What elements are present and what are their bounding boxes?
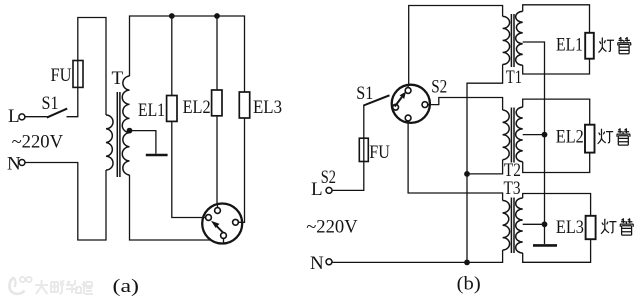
contact top (b) [405, 88, 411, 94]
rotary switch S2 body [392, 85, 430, 123]
fuse FU (b) [359, 138, 368, 161]
label 灯管 for EL1 (b) [599, 37, 632, 54]
wire secondary top to top rail to EL3 [130, 16, 245, 92]
lamp EL2 (b) [585, 125, 595, 153]
transformer T secondary winding [122, 76, 129, 175]
svg-text:~220V: ~220V [306, 217, 358, 238]
switch S1 blade [47, 109, 67, 118]
terminal N [19, 160, 25, 166]
contact stubs [203, 204, 242, 243]
contact bottom (b) [405, 115, 411, 121]
node junction rail-EL1 [169, 13, 175, 19]
svg-text:T3: T3 [504, 178, 521, 199]
wiper arrow (b) [395, 97, 402, 106]
ground (b) [533, 244, 557, 247]
svg-text:N: N [310, 253, 324, 274]
wire T1 secondary bottom to EL1 bottom [523, 59, 590, 74]
transformer T3 primary [503, 201, 510, 251]
transformer T3 secondary [516, 198, 523, 253]
contact top [215, 208, 221, 214]
svg-text:EL3: EL3 [253, 97, 282, 118]
svg-text:S2: S2 [431, 77, 447, 98]
svg-text:L: L [8, 106, 20, 127]
wire T2 secondary top to EL2 [523, 99, 590, 125]
svg-text:EL2: EL2 [183, 97, 211, 118]
lamp EL1 (b) [585, 33, 594, 59]
transformer T2 primary [503, 110, 510, 160]
contact left [206, 215, 212, 221]
wire secondary bottom to switch bottom [130, 175, 211, 240]
wire switch bottom to T3 primary [408, 123, 503, 201]
contact right [233, 219, 239, 225]
wire T1 secondary top to EL1 [523, 5, 590, 33]
wire T2 secondary bottom to EL2 bottom [523, 153, 590, 173]
node T2 primary to middle [464, 171, 470, 177]
wire T2 tap to chain [523, 134, 545, 136]
svg-text:S1: S1 [42, 93, 59, 114]
svg-text:(a): (a) [113, 276, 140, 297]
svg-text:S2: S2 [321, 167, 336, 188]
transformer T1 secondary [516, 11, 523, 65]
svg-text:~220V: ~220V [12, 132, 64, 153]
svg-text:S1: S1 [356, 83, 373, 104]
wiper arrow [216, 226, 223, 233]
transformer T1 core [511, 14, 514, 67]
svg-text:N: N [7, 154, 21, 175]
wire tap to ground [130, 131, 156, 154]
watermark logo [9, 277, 31, 294]
wire EL2 to switch top [216, 116, 218, 204]
transformer T primary winding [106, 115, 113, 170]
transformer T1 primary [503, 16, 510, 64]
terminal L (b) [326, 187, 332, 193]
node N rail-middle vertical [464, 260, 470, 266]
lamp EL3 (b) [586, 216, 596, 239]
lamp EL3 [239, 92, 249, 118]
wire EL1 to switch left contact [172, 121, 203, 217]
svg-text:FU: FU [369, 142, 390, 163]
terminal N (b) [326, 259, 332, 265]
wire N rail to T3 primary bottom [332, 250, 502, 262]
switch S1 blade (b) [364, 95, 390, 105]
svg-text:T1: T1 [506, 67, 522, 88]
wire FU through and up to loop, across, down to T primary [78, 18, 106, 116]
transformer T core [117, 92, 120, 177]
wire T3 tap to chain [523, 223, 545, 225]
svg-text:EL1: EL1 [556, 35, 583, 56]
wire T3 secondary top to EL3 [523, 194, 591, 216]
svg-text:L: L [311, 179, 323, 200]
lamp EL1 [167, 96, 177, 122]
wire switch top to T1 primary [409, 6, 503, 85]
contact left (b) [393, 104, 399, 110]
watermark text [35, 280, 93, 294]
transformer T3 core [511, 198, 514, 254]
transformer T2 core [511, 108, 514, 163]
ground [146, 154, 168, 157]
wire through fuse up to S1 pivot [363, 105, 365, 162]
contact bottom [221, 233, 227, 239]
contact stubs (b) [392, 85, 430, 123]
wire EL1 drop from rail [171, 16, 173, 96]
fuse FU [73, 61, 83, 88]
svg-text:(b): (b) [457, 274, 481, 295]
wire T2 primary bottom to middle vertical [467, 160, 503, 174]
svg-text:EL1: EL1 [138, 100, 165, 121]
wire switch right contact to T2 primary [430, 98, 503, 111]
wire T1 primary bottom down the middle [467, 64, 503, 262]
rotary switch SA body [202, 204, 242, 244]
lamp EL2 [212, 90, 222, 116]
terminal L [19, 114, 25, 120]
node T3 tap [542, 221, 548, 227]
wire S1 to FU [67, 87, 78, 116]
wire L to FU (b) [332, 162, 364, 191]
svg-text:EL2: EL2 [556, 127, 584, 148]
svg-text:T: T [112, 68, 124, 89]
wire T1 tap to ground chain [523, 42, 545, 244]
node junction rail-EL2 [214, 13, 220, 19]
wire N to primary bottom [25, 163, 106, 241]
svg-text:FU: FU [51, 65, 72, 86]
label 灯管 for EL2 (b) [598, 129, 631, 146]
node T2 tap [542, 132, 548, 138]
svg-text:EL3: EL3 [556, 217, 584, 238]
label 灯管 for EL3 (b) [601, 219, 634, 236]
wire T3 secondary bottom to EL3 bottom [523, 239, 591, 262]
wire EL3 to switch right contact [242, 118, 244, 222]
transformer T2 secondary [516, 107, 523, 162]
wire EL2 drop from rail [216, 16, 218, 90]
contact right (b) [422, 102, 428, 108]
node tap on secondary [127, 128, 133, 134]
wire L to S1 [25, 116, 48, 118]
